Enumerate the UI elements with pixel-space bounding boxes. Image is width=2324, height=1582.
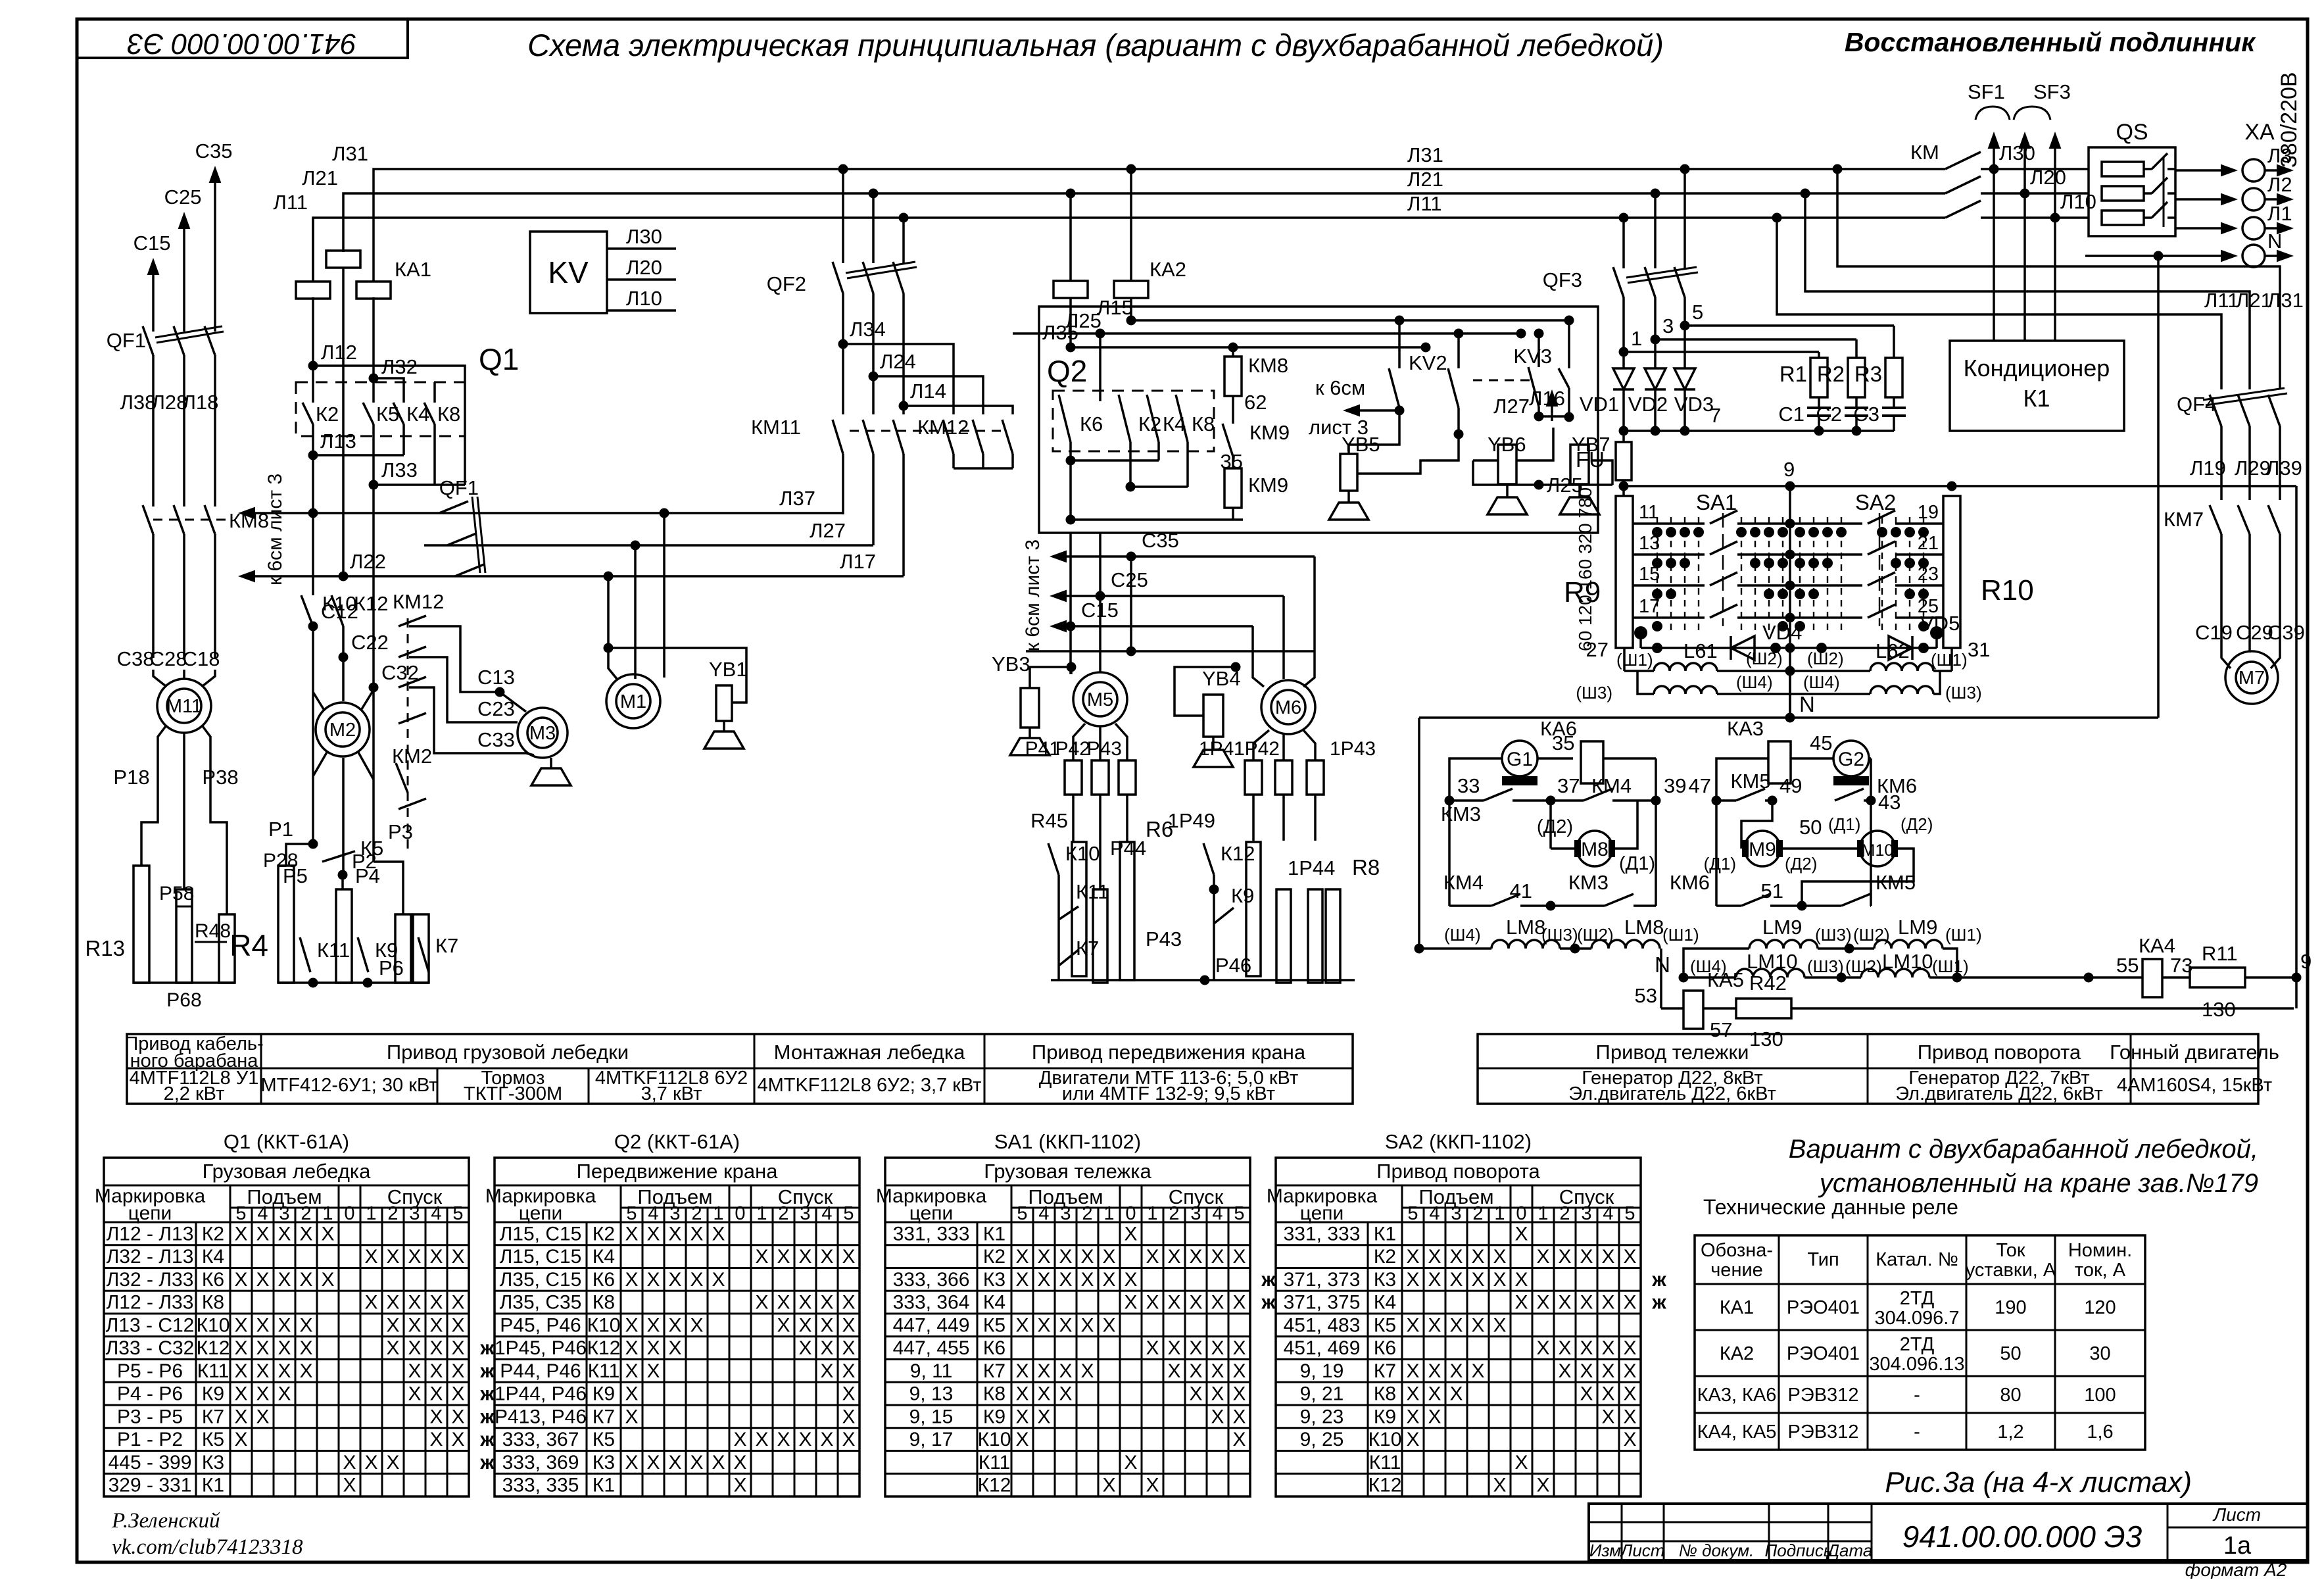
node P1 and contact K5 lower [313, 751, 327, 776]
svg-text:Вариант с двухбарабанной лебед: Вариант с двухбарабанной лебедкой, [1789, 1135, 2258, 1164]
svg-text:VD5: VD5 [1920, 612, 1960, 635]
svg-text:(Ш4): (Ш4) [1736, 672, 1773, 692]
svg-text:X: X [1146, 1475, 1159, 1496]
node 49 [1768, 796, 1778, 806]
svg-text:или 4MTF 132-9; 9,5 кВт: или 4MTF 132-9; 9,5 кВт [1062, 1083, 1275, 1104]
svg-text:X: X [1514, 1292, 1528, 1314]
wire tap Л31 right branch [1833, 164, 1843, 174]
svg-text:11: 11 [1639, 502, 1658, 523]
svg-text:X: X [256, 1383, 269, 1405]
svg-text:X: X [1211, 1246, 1224, 1268]
svg-text:Привод передвижения крана: Привод передвижения крана [1032, 1041, 1306, 1064]
svg-text:2: 2 [1559, 1203, 1570, 1224]
svg-text:X: X [625, 1314, 638, 1336]
svg-text:Ток: Ток [1996, 1240, 2025, 1261]
svg-text:X: X [408, 1383, 421, 1405]
svg-text:К6: К6 [1374, 1337, 1396, 1359]
svg-text:X: X [451, 1292, 464, 1314]
svg-text:X: X [429, 1383, 443, 1405]
svg-text:С2: С2 [1816, 403, 1842, 426]
arrows to sheet3 from KV2 [1395, 406, 1405, 416]
svg-text:X: X [408, 1360, 421, 1382]
svg-text:С38: С38 [117, 647, 155, 670]
svg-text:(Д2): (Д2) [1900, 814, 1933, 834]
svg-text:(Ш1): (Ш1) [1931, 650, 1968, 670]
svg-text:Л27: Л27 [1493, 395, 1530, 418]
svg-text:X: X [1514, 1452, 1528, 1473]
node Л32 [369, 374, 379, 383]
svg-text:РЭО401: РЭО401 [1787, 1343, 1860, 1364]
svg-text:2: 2 [301, 1203, 311, 1224]
svg-text:к 6см лист 3: к 6см лист 3 [1022, 539, 1044, 651]
svg-text:Л30: Л30 [1999, 141, 2035, 164]
svg-text:X: X [1580, 1383, 1593, 1405]
node Л25 lower [1534, 480, 1544, 490]
svg-text:(Ш4): (Ш4) [1803, 672, 1840, 692]
svg-text:X: X [408, 1246, 421, 1268]
svg-text:62: 62 [1244, 391, 1267, 414]
svg-text:Л17: Л17 [840, 550, 876, 573]
svg-text:39: 39 [1664, 774, 1686, 797]
svg-text:L62: L62 [1876, 639, 1910, 662]
svg-text:X: X [1059, 1360, 1072, 1382]
relay coil on Л21 feed [326, 251, 360, 268]
svg-text:R11: R11 [2202, 942, 2238, 965]
wire C25 arrow and link [1096, 591, 1105, 601]
svg-text:X: X [1189, 1246, 1202, 1268]
svg-text:X: X [820, 1292, 833, 1314]
motor M2 [313, 692, 324, 709]
svg-text:Л13 - С12: Л13 - С12 [106, 1314, 195, 1336]
svg-text:X: X [1623, 1383, 1636, 1405]
svg-text:X: X [1471, 1246, 1484, 1268]
svg-text:941.00.00.000 Э3: 941.00.00.000 Э3 [1902, 1520, 2142, 1554]
svg-text:(Ш1): (Ш1) [1616, 650, 1653, 670]
svg-text:(Д1): (Д1) [1619, 853, 1655, 874]
svg-text:Л32 - Л13: Л32 - Л13 [107, 1246, 194, 1268]
svg-text:VD3: VD3 [1674, 393, 1714, 416]
node Л16 with KV3 right blade [1564, 316, 1574, 326]
svg-text:Р4: Р4 [355, 864, 380, 887]
svg-text:R48: R48 [195, 920, 231, 942]
svg-text:2ТД: 2ТД [1900, 1288, 1935, 1309]
svg-text:1: 1 [322, 1203, 333, 1224]
svg-text:X: X [1015, 1429, 1029, 1450]
svg-text:SF3: SF3 [2033, 80, 2071, 103]
svg-text:2: 2 [387, 1203, 398, 1224]
svg-text:X: X [429, 1314, 443, 1336]
svg-text:1,6: 1,6 [2087, 1421, 2113, 1443]
svg-text:К11: К11 [588, 1360, 620, 1382]
svg-text:КА2: КА2 [1150, 258, 1186, 281]
svg-text:X: X [1037, 1314, 1050, 1336]
svg-text:Л22: Л22 [350, 550, 386, 573]
svg-text:1Р45, Р46: 1Р45, Р46 [495, 1337, 587, 1359]
svg-text:X: X [1189, 1337, 1202, 1359]
node Л14 [899, 401, 909, 411]
contactor coil KM9 [1224, 468, 1242, 508]
svg-text:N: N [2267, 230, 2282, 253]
svg-text:КМ6: КМ6 [1670, 871, 1710, 894]
svg-text:53: 53 [1635, 984, 1657, 1007]
svg-text:X: X [364, 1246, 377, 1268]
svg-text:X: X [690, 1314, 703, 1336]
svg-text:К2: К2 [983, 1246, 1005, 1268]
svg-text:(Ш4): (Ш4) [1444, 925, 1481, 945]
svg-text:X: X [1471, 1314, 1484, 1336]
vertical feeds to M5 [1069, 533, 1072, 674]
svg-text:С13: С13 [477, 666, 515, 689]
resistor R10 [1943, 496, 1960, 648]
svg-text:50: 50 [1799, 816, 1822, 839]
contact K2 in Q2 [1119, 395, 1130, 442]
svg-text:0: 0 [344, 1203, 354, 1224]
svg-text:3: 3 [1451, 1203, 1461, 1224]
svg-text:X: X [1059, 1246, 1072, 1268]
svg-text:К6: К6 [983, 1337, 1005, 1359]
svg-text:X: X [1189, 1383, 1202, 1405]
svg-text:X: X [777, 1314, 790, 1336]
svg-text:4MTKF112L8 6У2; 3,7 кВт: 4MTKF112L8 6У2; 3,7 кВт [757, 1075, 981, 1096]
svg-text:(Ш3): (Ш3) [1576, 683, 1612, 703]
svg-text:X: X [1623, 1292, 1636, 1314]
svg-text:100: 100 [2084, 1385, 2116, 1406]
svg-text:Привод тележки: Привод тележки [1596, 1041, 1749, 1064]
svg-text:447, 449: 447, 449 [893, 1314, 970, 1336]
svg-text:К4: К4 [202, 1246, 224, 1268]
motor M1 [606, 674, 660, 728]
svg-text:X: X [842, 1406, 855, 1427]
svg-text:К12: К12 [197, 1337, 230, 1359]
wire C15 arrow and link [1066, 622, 1076, 631]
svg-text:X: X [429, 1406, 443, 1427]
svg-text:X: X [1406, 1269, 1419, 1291]
svg-text:5: 5 [1692, 301, 1703, 324]
svg-text:X: X [625, 1406, 638, 1427]
svg-text:X: X [1037, 1269, 1050, 1291]
svg-text:Кондиционер: Кондиционер [1964, 355, 2110, 382]
svg-text:КА6: КА6 [1540, 717, 1577, 740]
svg-text:К12: К12 [587, 1337, 621, 1359]
svg-text:X: X [299, 1223, 312, 1245]
disconnector QS with fuses [2089, 147, 2175, 236]
svg-text:К7: К7 [1374, 1360, 1396, 1382]
svg-text:X: X [278, 1269, 291, 1291]
svg-text:С39: С39 [2267, 621, 2305, 644]
brake bell under M3 [550, 758, 552, 768]
svg-text:К6: К6 [1080, 412, 1103, 435]
node 41 [1546, 901, 1556, 911]
svg-text:К8: К8 [437, 403, 460, 426]
svg-text:3: 3 [669, 1203, 680, 1224]
svg-text:X: X [690, 1452, 703, 1473]
svg-text:Эл.двигатель Д22, 6кВт: Эл.двигатель Д22, 6кВт [1895, 1083, 2103, 1104]
motor M5 [1070, 667, 1073, 674]
svg-text:К6: К6 [593, 1269, 615, 1291]
node 37 [1546, 796, 1556, 806]
svg-text:X: X [234, 1429, 247, 1450]
svg-text:Л34: Л34 [850, 318, 886, 341]
diode VD3 [1683, 326, 1686, 368]
relay coil KA3 [1768, 741, 1791, 783]
svg-text:КА4, КА5: КА4, КА5 [1697, 1421, 1777, 1443]
svg-text:X: X [1232, 1406, 1246, 1427]
resistor R11 [2190, 968, 2245, 987]
svg-text:X: X [1037, 1383, 1050, 1405]
svg-text:X: X [1428, 1314, 1441, 1336]
svg-text:X: X [668, 1314, 681, 1336]
svg-text:X: X [1211, 1383, 1224, 1405]
svg-text:27: 27 [1586, 638, 1609, 661]
svg-text:1: 1 [1537, 1203, 1548, 1224]
svg-text:К2: К2 [593, 1223, 615, 1245]
svg-text:X: X [1015, 1360, 1029, 1382]
svg-text:3: 3 [1190, 1203, 1201, 1224]
svg-text:К9: К9 [1374, 1406, 1396, 1427]
diode VD1 [1622, 352, 1625, 368]
svg-text:К2: К2 [316, 403, 339, 426]
svg-text:Л39: Л39 [2266, 457, 2302, 480]
svg-text:М5: М5 [1087, 689, 1113, 710]
svg-text:(Ш1): (Ш1) [1945, 925, 1982, 945]
svg-text:X: X [733, 1429, 746, 1450]
svg-text:М7: М7 [2239, 668, 2265, 689]
svg-text:R2: R2 [1817, 362, 1845, 386]
relay coil KA5 [1683, 991, 1703, 1029]
svg-text:формат А2: формат А2 [2185, 1560, 2287, 1579]
svg-text:X: X [1146, 1246, 1159, 1268]
svg-text:цепи: цепи [909, 1202, 954, 1224]
svg-text:X: X [625, 1223, 638, 1245]
svg-text:С19: С19 [2195, 621, 2233, 644]
bus bottom of R4 bank [278, 981, 429, 984]
document stamp box (rotated) [77, 19, 408, 58]
svg-text:X: X [321, 1269, 334, 1291]
svg-text:5: 5 [1234, 1203, 1244, 1224]
svg-text:№ докум.: № докум. [1679, 1541, 1755, 1560]
svg-text:Л24: Л24 [880, 350, 916, 373]
svg-text:N: N [1799, 692, 1815, 716]
svg-text:X: X [429, 1429, 443, 1450]
node 7 bus [1624, 430, 1894, 432]
svg-text:Подпись: Подпись [1764, 1541, 1832, 1560]
svg-text:КМ7: КМ7 [2164, 508, 2204, 531]
svg-text:1: 1 [1103, 1203, 1114, 1224]
svg-text:1Р44, Р46: 1Р44, Р46 [495, 1383, 587, 1405]
svg-text:X: X [364, 1452, 377, 1473]
svg-text:Привод поворота: Привод поворота [1376, 1160, 1540, 1183]
svg-text:(Ш1): (Ш1) [1932, 956, 1969, 976]
svg-text:451, 469: 451, 469 [1284, 1337, 1361, 1359]
svg-text:941.00.00.000 Э3: 941.00.00.000 Э3 [127, 28, 356, 60]
svg-text:Л12: Л12 [321, 341, 357, 364]
svg-text:ж: ж [479, 1429, 495, 1450]
svg-text:5: 5 [452, 1203, 463, 1224]
wire bus Л31 [374, 169, 1945, 282]
svg-text:R8: R8 [1352, 855, 1380, 879]
svg-text:3: 3 [1662, 314, 1674, 337]
svg-text:X: X [1037, 1406, 1050, 1427]
svg-text:X: X [646, 1314, 660, 1336]
wire C33 [409, 687, 534, 755]
svg-text:X: X [1428, 1360, 1441, 1382]
svg-text:X: X [1037, 1360, 1050, 1382]
contact K8 in Q1 [424, 403, 435, 424]
svg-text:X: X [1601, 1383, 1614, 1405]
svg-text:9, 15: 9, 15 [909, 1406, 954, 1427]
svg-text:X: X [1406, 1406, 1419, 1427]
fuse FU [1622, 431, 1625, 442]
svg-text:130: 130 [1749, 1027, 1783, 1051]
svg-text:45: 45 [1810, 731, 1832, 754]
wire N rail down right side [2157, 256, 2160, 718]
svg-text:К1: К1 [983, 1223, 1005, 1245]
svg-text:304.096.7: 304.096.7 [1874, 1308, 1959, 1329]
contact K4 in Q2 [1147, 395, 1159, 442]
resistor R3 [1885, 358, 1902, 397]
svg-text:X: X [1211, 1360, 1224, 1382]
svg-text:(Ш1): (Ш1) [1662, 925, 1699, 945]
svg-text:Номин.: Номин. [2068, 1240, 2132, 1261]
svg-text:ХА: ХА [2244, 120, 2275, 145]
svg-text:X: X [1232, 1246, 1246, 1268]
svg-text:X: X [1558, 1246, 1571, 1268]
solenoid YB1 [604, 643, 614, 653]
svg-text:С28: С28 [150, 647, 187, 670]
svg-text:Л20: Л20 [2030, 166, 2066, 189]
svg-text:X: X [386, 1452, 399, 1473]
contactor KM8 left contacts [143, 505, 153, 534]
svg-text:К8: К8 [983, 1383, 1005, 1405]
svg-text:М2: М2 [329, 720, 356, 741]
resistor R9 [1616, 496, 1633, 648]
contact K9 in R4 [358, 937, 368, 972]
svg-text:X: X [1580, 1246, 1593, 1268]
svg-text:Л21: Л21 [302, 166, 338, 189]
svg-text:X: X [1428, 1269, 1441, 1291]
wire Л12 to Q1 right side [313, 366, 465, 485]
svg-text:2,2 кВт: 2,2 кВт [164, 1083, 225, 1104]
svg-text:X: X [646, 1223, 660, 1245]
contact K10 [301, 595, 313, 626]
motor M6 [1261, 680, 1315, 734]
svg-text:5: 5 [1017, 1203, 1027, 1224]
motor M8 branch [1549, 801, 1552, 849]
capacitor C3 [1893, 397, 1895, 408]
svg-text:KV3: KV3 [1513, 345, 1552, 368]
svg-text:3: 3 [1581, 1203, 1591, 1224]
svg-text:КМ8: КМ8 [1248, 354, 1288, 377]
wire Л37 feed row [308, 508, 318, 518]
svg-text:С22: С22 [351, 631, 389, 654]
svg-text:К9: К9 [202, 1383, 224, 1405]
svg-text:X: X [1211, 1337, 1224, 1359]
wire bus Л11 [313, 218, 1945, 282]
svg-text:X: X [1471, 1269, 1484, 1291]
svg-text:R4: R4 [230, 928, 268, 962]
svg-text:X: X [798, 1314, 811, 1336]
svg-text:447, 455: 447, 455 [893, 1337, 970, 1359]
diode VD5 [1935, 633, 1938, 648]
svg-text:X: X [1558, 1360, 1571, 1382]
svg-text:К11: К11 [979, 1452, 1011, 1473]
svg-text:К3: К3 [1374, 1269, 1396, 1291]
svg-text:цепи: цепи [1300, 1202, 1344, 1224]
svg-text:Р6: Р6 [379, 956, 404, 979]
capacitor C1 [1818, 397, 1820, 408]
contact K8 in Q2 [1176, 395, 1188, 442]
resistor R1 [1810, 358, 1828, 397]
svg-text:X: X [234, 1269, 247, 1291]
svg-text:X: X [1428, 1246, 1441, 1268]
svg-text:X: X [1623, 1429, 1636, 1450]
svg-text:43: 43 [1878, 791, 1900, 814]
svg-text:К4: К4 [593, 1246, 615, 1268]
node C22 [342, 626, 345, 657]
svg-text:333, 369: 333, 369 [502, 1452, 579, 1473]
generator G2 loop [1712, 796, 1722, 806]
svg-text:X: X [777, 1292, 790, 1314]
svg-text:С1: С1 [1778, 403, 1804, 426]
node Л13 [308, 451, 318, 460]
svg-text:Л14: Л14 [910, 380, 946, 403]
contact K10 bank [1048, 843, 1059, 875]
svg-text:КМ9: КМ9 [1249, 421, 1290, 444]
svg-text:X: X [1580, 1360, 1593, 1382]
svg-text:1Р43: 1Р43 [1330, 738, 1376, 760]
svg-text:Л16: Л16 [1529, 387, 1565, 410]
svg-text:К12: К12 [354, 592, 389, 615]
svg-text:Л2: Л2 [2267, 173, 2292, 196]
svg-text:KV2: KV2 [1409, 351, 1447, 374]
svg-text:Л27: Л27 [810, 519, 846, 542]
svg-text:9, 21: 9, 21 [1300, 1383, 1344, 1405]
svg-text:X: X [386, 1292, 399, 1314]
svg-text:0: 0 [1125, 1203, 1136, 1224]
svg-text:(Ш2): (Ш2) [1746, 649, 1783, 668]
svg-text:X: X [299, 1337, 312, 1359]
svg-text:4: 4 [1038, 1203, 1049, 1224]
svg-text:Тип: Тип [1807, 1249, 1839, 1270]
svg-text:Р413, Р46: Р413, Р46 [495, 1406, 587, 1427]
capacitor C2 [1855, 397, 1858, 408]
svg-text:X: X [1232, 1383, 1246, 1405]
svg-text:Р5: Р5 [283, 864, 308, 887]
svg-text:X: X [256, 1406, 269, 1427]
svg-text:Р.Зеленский: Р.Зеленский [111, 1509, 220, 1533]
svg-text:X: X [1493, 1246, 1506, 1268]
svg-text:X: X [690, 1269, 703, 1291]
svg-text:КА1: КА1 [1720, 1297, 1754, 1318]
svg-text:9, 23: 9, 23 [1300, 1406, 1344, 1427]
svg-text:R13: R13 [85, 936, 125, 960]
svg-text:X: X [234, 1337, 247, 1359]
svg-text:X: X [1623, 1337, 1636, 1359]
svg-text:ж: ж [479, 1406, 495, 1427]
svg-text:К7: К7 [593, 1406, 615, 1427]
svg-text:X: X [256, 1223, 269, 1245]
svg-text:1: 1 [366, 1203, 376, 1224]
svg-text:X: X [842, 1383, 855, 1405]
svg-text:Л3: Л3 [2267, 144, 2292, 167]
svg-text:2ТД: 2ТД [1900, 1334, 1935, 1355]
svg-text:R45: R45 [1030, 809, 1068, 832]
svg-text:К11: К11 [1369, 1452, 1401, 1473]
svg-text:К10: К10 [587, 1314, 621, 1336]
svg-text:РЭВ312: РЭВ312 [1788, 1385, 1859, 1406]
svg-text:X: X [1232, 1360, 1246, 1382]
svg-text:X: X [1015, 1269, 1029, 1291]
